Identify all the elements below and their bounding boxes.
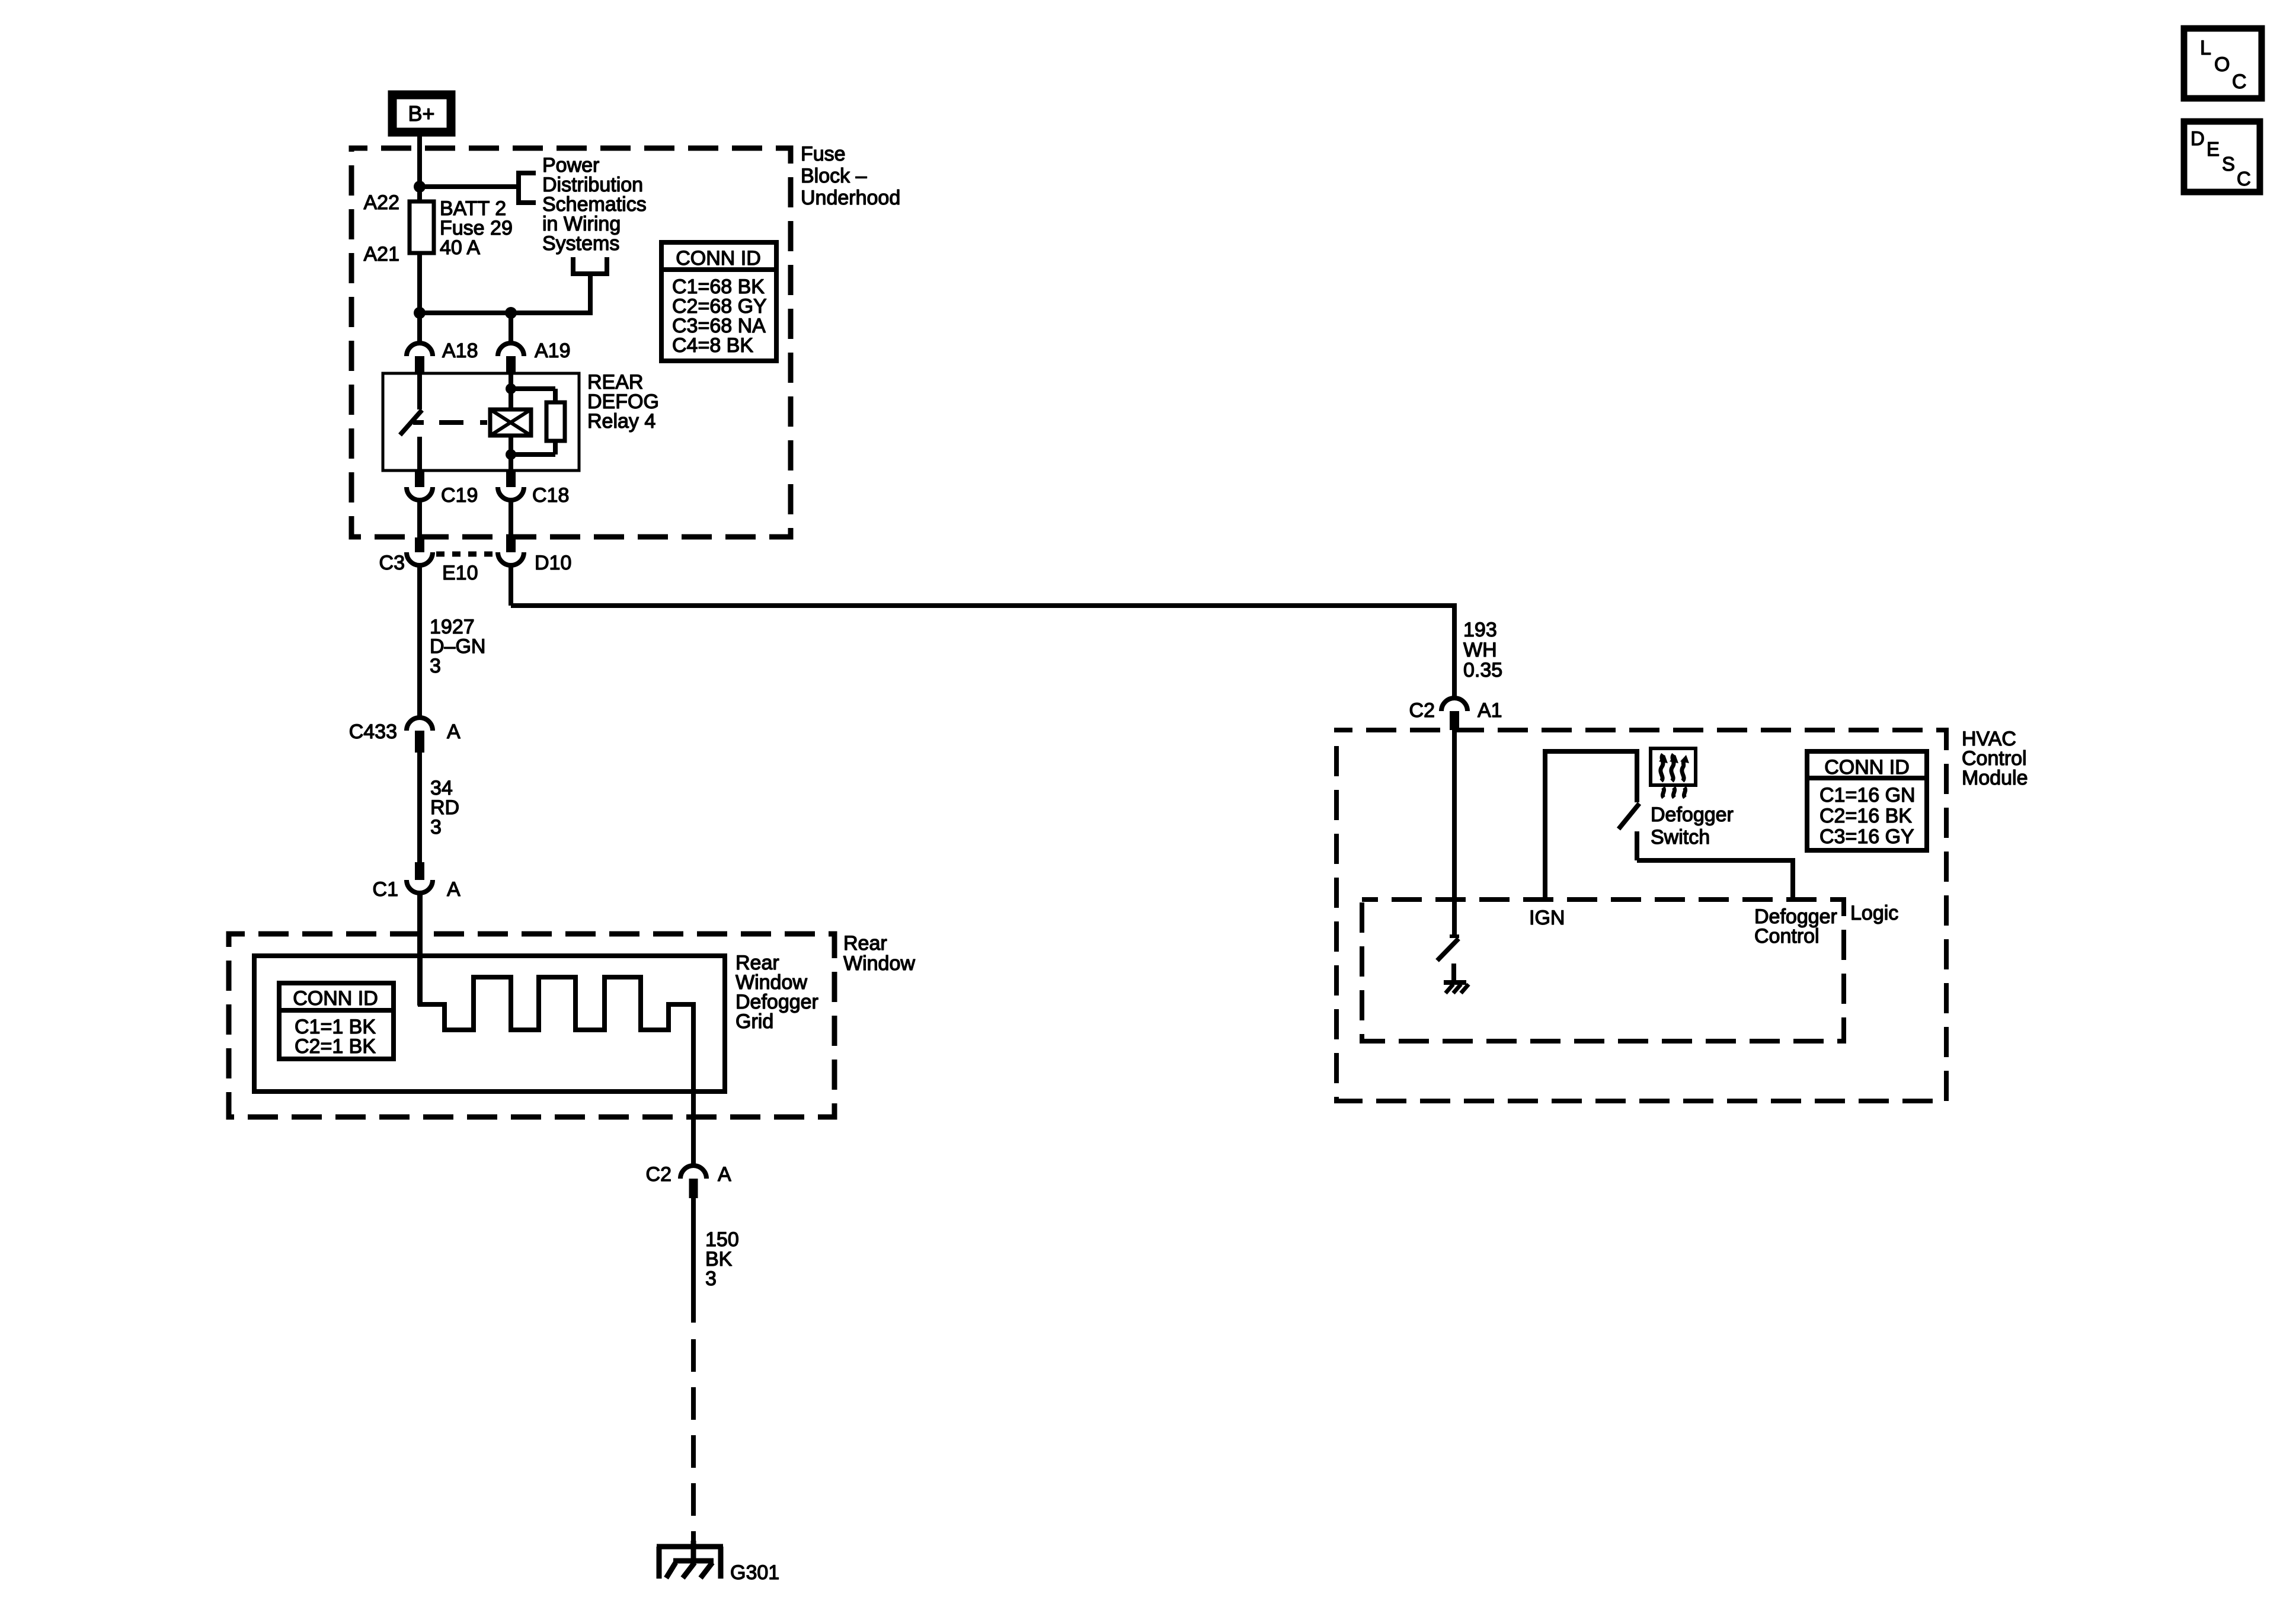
power node B+ [392, 95, 451, 132]
wire bus to relay pins [420, 274, 590, 313]
HVAC control module dashed box [1336, 730, 1946, 1101]
svg-text:A18: A18 [442, 340, 478, 362]
svg-text:C2=1 BK: C2=1 BK [295, 1035, 376, 1058]
label Fuse Block - Underhood [801, 143, 900, 209]
svg-text:Control: Control [1754, 925, 1819, 948]
svg-text:C: C [2232, 71, 2247, 93]
svg-text:0.35: 0.35 [1463, 659, 1502, 681]
svg-text:Grid: Grid [736, 1010, 773, 1033]
svg-text:C1=16 GN: C1=16 GN [1819, 784, 1916, 806]
off-page reference bracket (lower) with stem [571, 257, 609, 276]
svg-text:CONN ID: CONN ID [1824, 756, 1910, 779]
svg-text:C3: C3 [379, 552, 405, 574]
svg-text:C2: C2 [1409, 699, 1435, 722]
relay REAR DEFOG Relay 4 box [383, 373, 579, 470]
svg-text:40 A: 40 A [440, 236, 480, 259]
label Power Distribution Schematics in Wiring Systems [542, 154, 647, 255]
svg-text:Fuse: Fuse [801, 143, 846, 165]
connector D10 [498, 537, 571, 574]
label HVAC Control Module [1962, 728, 2028, 789]
conn id table HVAC [1807, 751, 1927, 850]
svg-text:E: E [2207, 138, 2220, 160]
wire to A18 [417, 313, 422, 343]
svg-text:WH: WH [1463, 639, 1497, 661]
svg-text:A19: A19 [535, 340, 571, 362]
svg-text:E10: E10 [442, 562, 478, 584]
svg-text:C433: C433 [349, 721, 397, 743]
connector C3 pin E10 [379, 537, 478, 584]
svg-text:L: L [2200, 37, 2211, 59]
svg-text:3: 3 [430, 655, 441, 677]
defogger switch [1619, 804, 1793, 900]
connector pin A18 [407, 340, 478, 375]
dashed ground wire [691, 1339, 696, 1544]
svg-text:D: D [2191, 127, 2205, 149]
svg-text:Rear: Rear [843, 932, 887, 955]
relay resistor [546, 402, 565, 441]
ground G301 [657, 1541, 779, 1584]
svg-text:Window: Window [843, 952, 915, 975]
chassis ground (module internal) [1444, 982, 1469, 993]
svg-text:193: 193 [1463, 619, 1497, 641]
relay internal wires and junctions [506, 373, 555, 470]
wire branch to power distribution reference [420, 184, 519, 189]
logic dashed box [1362, 900, 1844, 1041]
label Rear Window [843, 932, 915, 975]
svg-text:A: A [718, 1163, 731, 1186]
LOC box [2184, 28, 2262, 98]
svg-text:Block –: Block – [801, 165, 867, 187]
svg-text:A22: A22 [364, 191, 400, 214]
svg-text:Underhood: Underhood [801, 187, 900, 209]
svg-text:3: 3 [705, 1267, 717, 1290]
internal switch to ground [1437, 936, 1459, 981]
conn id table rear window [279, 983, 394, 1059]
svg-text:A: A [447, 721, 461, 743]
connector pin C18 [498, 470, 569, 537]
svg-text:A1: A1 [1478, 699, 1502, 722]
svg-text:C3=16 GY: C3=16 GY [1819, 825, 1914, 848]
svg-text:C18: C18 [532, 484, 569, 507]
svg-text:IGN: IGN [1529, 907, 1565, 929]
wire to A19 [509, 313, 513, 343]
label REAR DEFOG Relay 4 [587, 371, 659, 433]
svg-text:C1: C1 [373, 878, 398, 901]
wire 34 RD 3 [417, 753, 422, 862]
relay coil [490, 409, 531, 436]
label Defogger Control [1754, 905, 1837, 948]
svg-text:CONN ID: CONN ID [676, 247, 761, 270]
svg-text:C2=16 BK: C2=16 BK [1819, 805, 1912, 827]
label Rear Window Defogger Grid [736, 952, 818, 1033]
svg-text:Module: Module [1962, 767, 2028, 789]
rear window inner solid box [254, 956, 725, 1092]
svg-text:Logic: Logic [1850, 902, 1898, 924]
svg-text:Defogger: Defogger [1651, 804, 1734, 826]
svg-text:B+: B+ [408, 101, 434, 126]
rear window dashed box [229, 934, 834, 1117]
junction node at B+ branch [414, 181, 426, 193]
svg-text:Switch: Switch [1651, 826, 1710, 849]
fuse BATT 2 Fuse 29 40 A [410, 201, 434, 313]
svg-text:C4=8 BK: C4=8 BK [672, 334, 753, 357]
wire 1927 D-GN 3 [417, 565, 422, 718]
svg-text:C: C [2237, 168, 2251, 190]
in-line connector C433 pin A [349, 718, 461, 753]
defogger grid element [420, 893, 693, 1165]
connector C2 pin A1 (HVAC) [1409, 698, 1502, 730]
conn id table fuse block [661, 242, 776, 361]
defogger indicator icon [1651, 748, 1696, 798]
svg-text:CONN ID: CONN ID [293, 987, 378, 1010]
connector C2 pin A (rear window) [646, 1163, 731, 1198]
wire IGN riser [1545, 751, 1637, 900]
in-line connector C1 pin A [373, 862, 461, 1006]
svg-text:A21: A21 [364, 243, 400, 265]
svg-text:A: A [447, 878, 461, 901]
svg-text:S: S [2222, 153, 2235, 175]
svg-text:C19: C19 [441, 484, 478, 507]
wire B+ down to fuse [417, 136, 422, 201]
svg-text:3: 3 [430, 816, 442, 838]
wire 150 BK 3 [691, 1198, 696, 1323]
junction dot right [505, 307, 517, 319]
wire C2/A1 down to internal switch [1452, 730, 1457, 935]
junction dot left [414, 307, 426, 319]
svg-text:D10: D10 [535, 552, 571, 574]
off-page reference bracket (upper) [516, 171, 536, 205]
DESC box [2184, 121, 2260, 192]
connector body dotted link C3 to D10 [436, 552, 495, 557]
connector pin C19 [407, 470, 478, 537]
wire 193 WH 0.35 from D10 to HVAC [511, 565, 1454, 698]
svg-text:O: O [2214, 53, 2230, 76]
connector pin A19 [498, 340, 571, 375]
relay dashed actuation link [439, 420, 487, 425]
svg-text:Systems: Systems [542, 232, 619, 255]
svg-text:Relay 4: Relay 4 [587, 410, 655, 433]
relay switch contact [400, 373, 424, 470]
fuse block underhood dashed box [351, 148, 791, 537]
svg-text:G301: G301 [730, 1561, 779, 1584]
svg-text:C2: C2 [646, 1163, 671, 1186]
